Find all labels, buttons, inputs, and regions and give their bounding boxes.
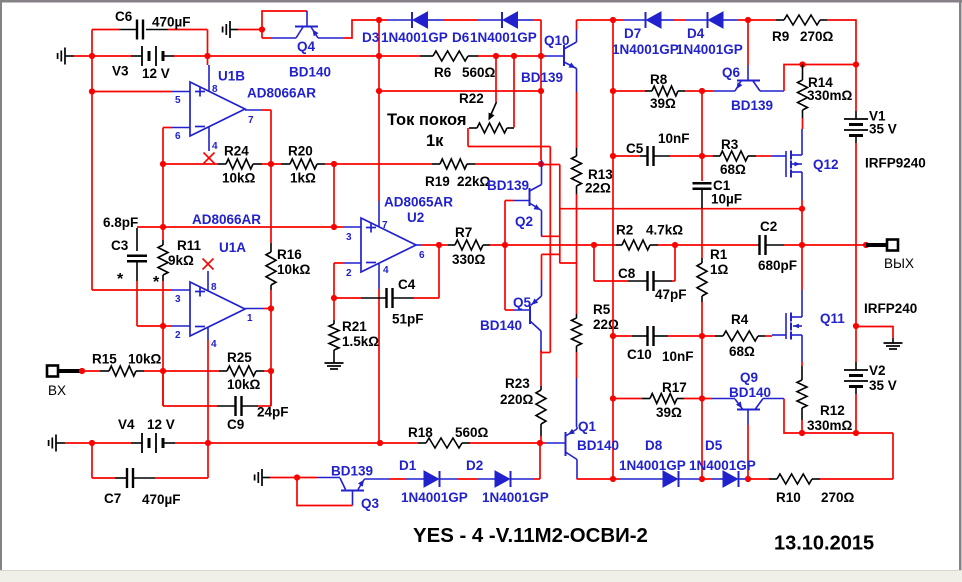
wire	[379, 55, 420, 57]
wire	[168, 29, 208, 31]
node	[610, 17, 616, 23]
wire	[701, 209, 703, 258]
label D6	[452, 30, 470, 45]
ground	[58, 48, 74, 65]
node	[331, 295, 337, 301]
diode D4	[708, 12, 724, 28]
node	[745, 476, 751, 482]
resistor R5	[572, 314, 582, 352]
node	[699, 476, 705, 482]
wire	[661, 19, 674, 21]
node	[160, 368, 166, 374]
resistor R7	[448, 240, 490, 250]
ground	[884, 338, 903, 349]
transistor Q4	[272, 11, 344, 38]
svg-text:R15: R15	[92, 352, 117, 367]
label C9	[227, 417, 244, 432]
wire	[577, 20, 624, 30]
wire	[540, 350, 542, 386]
label V4	[118, 417, 135, 432]
wire	[594, 245, 628, 281]
wire	[739, 478, 746, 480]
node	[436, 242, 442, 248]
svg-text:Q12: Q12	[813, 157, 839, 172]
node	[699, 153, 705, 159]
node	[268, 368, 274, 374]
label R23	[505, 376, 530, 391]
node	[89, 88, 95, 94]
wire	[684, 398, 712, 400]
diode D1	[424, 471, 440, 487]
svg-text:4: 4	[212, 141, 218, 152]
wire	[670, 155, 713, 157]
svg-text:*: *	[153, 274, 160, 291]
wire	[92, 91, 172, 93]
svg-text:IRFP240: IRFP240	[864, 301, 917, 316]
wire	[144, 370, 219, 372]
label date	[774, 533, 874, 555]
label R5	[593, 302, 611, 317]
label Q12	[813, 157, 839, 172]
wire	[541, 235, 559, 237]
wire	[428, 19, 444, 21]
svg-text:V3: V3	[112, 64, 129, 79]
wire	[613, 335, 632, 337]
svg-text:10kΩ: 10kΩ	[277, 262, 311, 277]
label R10	[776, 490, 801, 505]
pin 7	[379, 201, 388, 231]
op-amp U1A	[190, 282, 245, 336]
node	[853, 430, 859, 436]
wire	[576, 194, 578, 314]
svg-text:V2: V2	[869, 363, 886, 378]
label ВЫХ	[884, 256, 914, 271]
label Q1	[578, 419, 597, 434]
wire	[92, 443, 115, 478]
label C7	[104, 491, 121, 506]
wire	[414, 245, 439, 298]
label R16	[277, 247, 302, 262]
label 10kΩ	[222, 171, 256, 186]
wire	[378, 289, 380, 443]
resistor R8	[645, 86, 685, 96]
transistor Q3	[317, 478, 389, 506]
svg-text:BD139: BD139	[731, 98, 773, 113]
svg-text:AD8066AR: AD8066AR	[247, 86, 316, 101]
svg-text:C7: C7	[104, 491, 121, 506]
wire	[388, 19, 413, 21]
svg-text:1N4001GP: 1N4001GP	[619, 458, 686, 473]
diode D3	[412, 12, 428, 28]
node	[268, 305, 274, 311]
svg-text:AD8065AR: AD8065AR	[384, 195, 453, 210]
label V3	[112, 64, 129, 79]
wire	[801, 362, 803, 366]
wire	[699, 478, 712, 480]
label D1	[399, 458, 417, 473]
label R15	[92, 352, 117, 367]
label Q5	[513, 295, 532, 310]
label 10µF	[711, 192, 742, 207]
capacitor C6	[119, 20, 168, 40]
transistor Q12	[772, 129, 802, 200]
label C3	[111, 238, 129, 253]
svg-text:6.8pF: 6.8pF	[103, 215, 138, 230]
label 51pF	[392, 312, 424, 327]
wire	[270, 290, 272, 406]
label C10	[627, 347, 652, 362]
wire	[379, 90, 541, 92]
label 10nF	[658, 131, 690, 146]
svg-text:Q9: Q9	[740, 370, 758, 385]
wire	[613, 398, 642, 400]
svg-text:1N4001GP: 1N4001GP	[381, 30, 448, 45]
wire	[443, 19, 478, 21]
pin 8	[208, 271, 217, 293]
node	[799, 430, 805, 436]
label BD140	[480, 318, 522, 333]
svg-text:U1A: U1A	[219, 240, 246, 255]
svg-text:330Ω: 330Ω	[452, 252, 486, 267]
svg-text:R5: R5	[593, 302, 611, 317]
svg-text:10nF: 10nF	[658, 131, 690, 146]
svg-text:10µF: 10µF	[711, 192, 742, 207]
wire	[541, 55, 545, 57]
wire	[613, 155, 640, 157]
capacitor C4	[361, 288, 414, 308]
label Q3	[361, 496, 380, 511]
svg-text:C5: C5	[626, 141, 644, 156]
wire	[541, 254, 543, 280]
svg-text:22Ω: 22Ω	[585, 181, 611, 196]
svg-text:R18: R18	[408, 425, 433, 440]
label 47pF	[655, 287, 687, 302]
label 9kΩ	[168, 253, 194, 268]
label R22	[459, 91, 484, 106]
svg-text:51pF: 51pF	[392, 312, 424, 327]
node	[853, 61, 859, 67]
svg-text:35 V: 35 V	[869, 122, 897, 137]
svg-text:Q2: Q2	[515, 214, 533, 229]
svg-text:C9: C9	[227, 417, 244, 432]
wire	[612, 20, 614, 479]
ground	[49, 435, 65, 452]
wire	[470, 442, 545, 444]
label R14	[808, 75, 833, 90]
resistor R19	[432, 159, 475, 169]
node	[799, 61, 805, 67]
label AD8065AR	[384, 195, 453, 210]
label V1	[869, 109, 886, 124]
wire	[92, 29, 119, 31]
svg-text:R8: R8	[650, 72, 668, 87]
label 560Ω	[462, 65, 496, 80]
label 270Ω	[800, 29, 834, 44]
pin 1	[245, 309, 263, 325]
svg-text:C4: C4	[398, 277, 416, 292]
label Q10	[544, 33, 570, 48]
wire	[207, 30, 209, 66]
label 35 V	[869, 378, 897, 393]
svg-text:10kΩ: 10kΩ	[128, 352, 162, 367]
svg-text:R16: R16	[277, 247, 302, 262]
svg-text:AD8066AR: AD8066AR	[192, 212, 261, 227]
node	[610, 88, 616, 94]
pin 6	[415, 245, 425, 261]
node	[538, 88, 544, 94]
wire	[801, 245, 803, 290]
svg-text:R20: R20	[288, 144, 313, 159]
wire	[270, 477, 317, 479]
label C2	[760, 219, 777, 234]
wire	[801, 200, 803, 209]
op-amp U2	[361, 218, 416, 272]
label 1N4001GP	[470, 30, 537, 45]
wire	[65, 442, 131, 444]
node	[377, 440, 383, 446]
node	[610, 333, 616, 339]
node	[160, 224, 166, 230]
wire	[495, 56, 497, 102]
svg-text:13.10.2015: 13.10.2015	[774, 533, 874, 555]
pin 4	[208, 327, 217, 350]
svg-text:330mΩ: 330mΩ	[807, 88, 853, 103]
label 35 V	[869, 122, 897, 137]
wire	[262, 110, 271, 164]
wire	[746, 478, 769, 480]
wire	[238, 29, 262, 31]
wire	[577, 478, 621, 480]
svg-text:BX: BX	[48, 383, 66, 398]
wire	[163, 127, 172, 129]
label 330mΩ	[807, 418, 853, 433]
wire	[478, 478, 495, 480]
wire	[333, 164, 335, 227]
label R6	[434, 65, 452, 80]
svg-text:1к: 1к	[426, 132, 444, 150]
wire	[440, 478, 458, 480]
svg-text:Q5: Q5	[513, 295, 532, 310]
wire	[325, 163, 432, 165]
svg-text:1N4001GP: 1N4001GP	[470, 30, 537, 45]
label 22Ω	[593, 317, 619, 332]
diode D5	[723, 471, 739, 487]
wire	[162, 128, 164, 241]
wire	[82, 370, 100, 372]
label Q6	[722, 65, 741, 80]
label 10nF	[662, 349, 694, 364]
svg-text:Q1: Q1	[578, 419, 597, 434]
label 39Ω	[656, 405, 682, 420]
svg-text:Q4: Q4	[297, 39, 316, 54]
wire	[541, 147, 550, 353]
svg-text:D6: D6	[452, 30, 470, 45]
svg-text:Ток покоя: Ток покоя	[387, 111, 467, 129]
svg-text:35 V: 35 V	[869, 378, 897, 393]
svg-text:4: 4	[383, 265, 389, 276]
svg-text:220Ω: 220Ω	[500, 392, 534, 407]
wire	[334, 263, 344, 298]
wire	[679, 478, 699, 480]
wire	[174, 55, 208, 57]
resistor R1	[697, 258, 707, 302]
svg-text:BD140: BD140	[480, 318, 522, 333]
wire	[560, 208, 802, 210]
label R11	[177, 238, 202, 253]
label 1kΩ	[290, 171, 316, 186]
wire	[207, 340, 209, 443]
svg-text:1: 1	[247, 313, 253, 324]
svg-text:D4: D4	[687, 26, 705, 41]
svg-text:R21: R21	[342, 319, 367, 334]
wire	[576, 69, 578, 93]
transistor Q6	[713, 65, 784, 91]
label 1N4001GP	[619, 458, 686, 473]
wire	[668, 335, 715, 337]
label BD140	[289, 65, 331, 80]
wire	[747, 20, 749, 65]
resistor R13	[572, 148, 582, 194]
svg-text:V4: V4	[118, 417, 135, 432]
label R8	[650, 72, 668, 87]
svg-text:R12: R12	[820, 403, 845, 418]
label 1.5kΩ	[342, 334, 379, 349]
svg-text:C6: C6	[115, 9, 133, 24]
label D7	[624, 26, 641, 41]
wire	[723, 19, 737, 21]
svg-text:39Ω: 39Ω	[656, 405, 682, 420]
wire	[686, 19, 708, 21]
label R18	[408, 425, 433, 440]
svg-text:1.5kΩ: 1.5kΩ	[342, 334, 379, 349]
label C8	[618, 266, 636, 281]
wire	[162, 281, 164, 406]
svg-text:R22: R22	[459, 91, 484, 106]
wire	[559, 165, 561, 264]
svg-text:C3: C3	[111, 238, 129, 253]
label BD140	[577, 438, 619, 453]
wire	[540, 436, 542, 443]
svg-text:R2: R2	[616, 223, 633, 238]
svg-text:BD139: BD139	[521, 70, 563, 85]
window frame right	[959, 0, 962, 570]
capacitor C8	[628, 271, 672, 291]
node	[204, 53, 210, 59]
svg-text:D3: D3	[362, 30, 380, 45]
resistor R23	[536, 386, 546, 436]
svg-text:D7: D7	[624, 26, 641, 41]
label C4	[398, 277, 416, 292]
svg-text:R3: R3	[721, 137, 739, 152]
label D5	[705, 438, 723, 453]
label 560Ω	[455, 425, 489, 440]
svg-text:C2: C2	[760, 219, 777, 234]
svg-text:470µF: 470µF	[142, 492, 181, 507]
label D2	[466, 458, 483, 473]
capacitor C7	[115, 468, 155, 488]
wire	[389, 478, 406, 480]
window frame left	[0, 0, 2, 570]
wire	[801, 209, 803, 245]
label BD139	[521, 70, 563, 85]
wire	[737, 19, 776, 21]
wire	[747, 425, 749, 479]
svg-text:R6: R6	[434, 65, 452, 80]
wire	[262, 37, 272, 39]
svg-text:1N4001GP: 1N4001GP	[612, 42, 679, 57]
label 10kΩ	[277, 262, 311, 277]
svg-text:R7: R7	[455, 225, 472, 240]
label 39Ω	[650, 96, 676, 111]
node	[89, 53, 95, 59]
node	[863, 242, 869, 248]
label D3	[362, 30, 380, 45]
wire	[542, 253, 560, 255]
node	[502, 242, 508, 248]
node	[853, 323, 859, 329]
wire	[892, 433, 894, 479]
label *	[117, 271, 124, 288]
svg-text:2: 2	[175, 330, 181, 341]
svg-text:1N4001GP: 1N4001GP	[689, 458, 756, 473]
svg-text:68Ω: 68Ω	[720, 162, 746, 177]
label Q9	[740, 370, 758, 385]
svg-text:Q3: Q3	[361, 496, 380, 511]
wire	[406, 478, 424, 480]
label D8	[645, 438, 663, 453]
label 1к	[426, 132, 444, 150]
label 12 V	[147, 417, 175, 432]
pin 5	[172, 92, 190, 107]
resistor R20	[281, 159, 325, 169]
svg-text:4: 4	[211, 339, 217, 350]
wire	[378, 20, 380, 201]
wire	[533, 443, 540, 479]
svg-text:7: 7	[248, 115, 254, 126]
node	[672, 242, 678, 248]
battery V3	[131, 46, 174, 66]
node	[799, 206, 805, 212]
wire	[827, 20, 856, 65]
pin 2	[172, 326, 190, 341]
wire	[712, 478, 723, 480]
label U2	[407, 210, 424, 225]
wire	[163, 163, 218, 165]
node	[259, 26, 265, 32]
svg-text:330mΩ: 330mΩ	[807, 418, 853, 433]
label AD8066AR	[192, 212, 261, 227]
transistor Q11	[772, 290, 802, 362]
svg-text:C8: C8	[618, 266, 636, 281]
svg-text:5: 5	[175, 95, 181, 106]
svg-text:4.7kΩ: 4.7kΩ	[646, 223, 683, 238]
wire	[701, 399, 703, 480]
wire	[155, 443, 208, 478]
svg-text:1N4001GP: 1N4001GP	[676, 42, 743, 57]
node	[591, 242, 597, 248]
resistor R24	[218, 159, 262, 169]
node	[376, 53, 382, 59]
wire	[270, 164, 272, 243]
svg-text:9kΩ: 9kΩ	[168, 253, 194, 268]
svg-text:Q11: Q11	[820, 311, 845, 326]
label 68Ω	[720, 162, 746, 177]
label IRFP9240	[865, 156, 926, 171]
svg-text:U2: U2	[407, 210, 424, 225]
label R4	[731, 312, 749, 327]
svg-text:BD139: BD139	[331, 464, 373, 479]
wire	[756, 155, 772, 157]
